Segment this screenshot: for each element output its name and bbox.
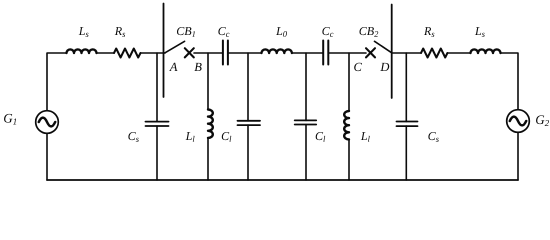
inductor Ll (right) bbox=[344, 53, 349, 180]
wire: left source branch bottom bbox=[46, 133, 48, 180]
label Rs (left) bbox=[115, 27, 125, 37]
resistor Rs (left) bbox=[114, 49, 141, 58]
label G1 bbox=[4, 114, 16, 125]
wire bbox=[194, 52, 223, 54]
resistor Rs (right) bbox=[421, 49, 447, 58]
node A bbox=[169, 63, 177, 71]
label CB2 bbox=[359, 27, 378, 37]
wire: right source branch bottom bbox=[517, 132, 519, 180]
capacitor Cl (right) bbox=[295, 53, 317, 180]
wire bbox=[447, 52, 470, 54]
wire: left source branch top bbox=[47, 53, 67, 111]
label Rs (right) bbox=[424, 27, 434, 37]
label Cs (left) bbox=[128, 132, 138, 142]
inductor Ll (left) bbox=[208, 53, 213, 180]
capacitor Cs (right) bbox=[397, 53, 418, 180]
source G2 bbox=[507, 110, 530, 133]
label Cs (right) bbox=[428, 132, 438, 142]
label G2 bbox=[536, 115, 549, 126]
inductor L0 bbox=[262, 49, 292, 53]
label Ls (right) bbox=[475, 27, 485, 37]
label Cc (left) bbox=[218, 27, 229, 37]
circuit breaker CB2 bbox=[366, 41, 392, 57]
label L0 bbox=[276, 27, 287, 37]
wire: right source branch top bbox=[501, 53, 519, 110]
capacitor Cs (left) bbox=[146, 53, 169, 180]
capacitor Cc (right) bbox=[323, 41, 328, 65]
label Cl (right) bbox=[316, 132, 326, 142]
label Cc (right) bbox=[322, 27, 333, 37]
node C bbox=[354, 63, 362, 71]
wire bbox=[328, 52, 366, 54]
label CB1 bbox=[177, 27, 195, 37]
label Ll (left) bbox=[186, 132, 195, 142]
wire: bottom bus bbox=[47, 179, 518, 181]
breaker bus line (left) bbox=[163, 4, 165, 98]
breaker bus line (right) bbox=[391, 5, 393, 99]
label Ls (left) bbox=[79, 27, 89, 37]
inductor Ls (left) bbox=[67, 49, 97, 53]
wire bbox=[392, 52, 421, 54]
capacitor Cc (left) bbox=[223, 41, 228, 65]
wire bbox=[97, 52, 115, 54]
wire bbox=[141, 52, 166, 54]
capacitor Cl (left) bbox=[238, 53, 261, 180]
source G1 bbox=[36, 111, 59, 134]
label Ll (right) bbox=[361, 132, 370, 142]
wire bbox=[228, 52, 262, 54]
node D bbox=[380, 63, 389, 71]
label Cl (left) bbox=[222, 132, 232, 142]
node B bbox=[194, 63, 201, 71]
inductor Ls (right) bbox=[471, 49, 501, 53]
wire bbox=[292, 52, 323, 54]
circuit breaker CB1 bbox=[165, 41, 194, 57]
